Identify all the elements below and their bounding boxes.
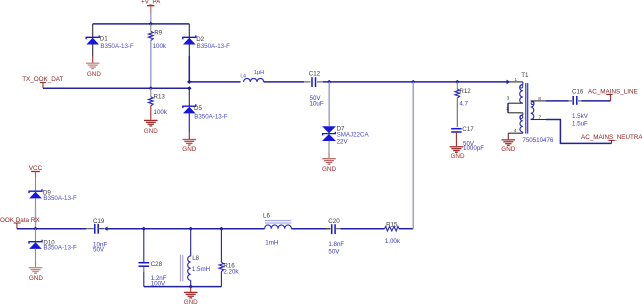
T1 primary winding bottom (pins 2-4) <box>522 113 524 115</box>
junction RX rail / C28 <box>142 227 147 231</box>
diode D1 <box>86 35 134 50</box>
svg-text:GND: GND <box>501 146 515 153</box>
net label OOK Data RX <box>0 217 40 229</box>
power VCC <box>29 165 43 191</box>
svg-text:B350A-13-F: B350A-13-F <box>197 43 231 50</box>
wire C12 to T1 <box>323 81 413 83</box>
svg-text:D2: D2 <box>196 36 204 43</box>
resistor R16 <box>219 229 239 287</box>
svg-text:B350A-13-F: B350A-13-F <box>100 43 134 50</box>
svg-text:L6: L6 <box>263 212 270 219</box>
svg-text:3: 3 <box>507 95 510 101</box>
wire main rail to T1 <box>413 81 507 83</box>
net label AC_MAINS_NEUTRAL <box>581 134 642 143</box>
junction RX rail / R16 <box>219 227 224 231</box>
svg-text:R9: R9 <box>154 30 162 37</box>
svg-text:C20: C20 <box>328 218 340 225</box>
junction TX wire / D5 column <box>187 86 192 90</box>
junction RX rail / D9 D10 <box>33 227 38 231</box>
svg-text:1.5kV: 1.5kV <box>572 113 589 120</box>
svg-text:GND: GND <box>87 71 101 78</box>
wire D7 drop <box>328 82 330 126</box>
wire C16 to AC_MAINS_LINE <box>582 100 611 102</box>
wire T1 pin 7 to AC_MAINS_NEUTRAL <box>546 120 612 144</box>
transformer T1 <box>506 72 554 144</box>
junction C12 / D7 <box>327 80 332 84</box>
T1 primary winding top (pins 1-3) <box>522 82 524 85</box>
wire main rail to L4 <box>189 81 240 83</box>
wire T1 pin 8 to C16 <box>546 100 569 102</box>
svg-text:GND: GND <box>144 128 158 135</box>
T1 secondary winding (pins 8-7) <box>531 101 534 120</box>
svg-text:GND: GND <box>322 166 336 173</box>
svg-text:T1: T1 <box>521 72 529 79</box>
svg-text:GND: GND <box>29 275 43 282</box>
svg-text:GND: GND <box>182 146 196 153</box>
capacitor C28 <box>139 229 167 288</box>
resistor R13 <box>149 88 168 120</box>
svg-text:1.8nF: 1.8nF <box>328 241 344 248</box>
svg-text:B350A-13-F: B350A-13-F <box>43 245 77 252</box>
resistor R9 <box>149 24 167 88</box>
svg-text:+V_PA: +V_PA <box>141 0 161 6</box>
svg-text:C28: C28 <box>151 261 163 268</box>
power +V_PA <box>141 0 161 24</box>
ground GND (D10) <box>29 249 44 282</box>
capacitor C20 <box>326 218 344 255</box>
ground GND (R13) <box>144 120 158 134</box>
svg-text:100k: 100k <box>154 109 168 116</box>
wire arrow after C19 <box>104 227 108 231</box>
ground GND (C17) <box>450 132 465 160</box>
ground GND (D5) <box>182 113 196 153</box>
junction bottom rail / GND <box>188 285 193 289</box>
wire D2 to main rail <box>188 44 190 82</box>
svg-text:D1: D1 <box>100 36 108 43</box>
inductor L6 <box>263 212 291 246</box>
svg-text:R13: R13 <box>154 93 166 100</box>
wire TX_OOK_DAT <box>43 87 189 89</box>
ground GND (D7) <box>322 141 336 173</box>
svg-text:100k: 100k <box>153 43 167 50</box>
svg-text:D5: D5 <box>194 105 202 112</box>
svg-text:1mH: 1mH <box>265 239 278 246</box>
svg-text:R12: R12 <box>459 88 471 95</box>
diode D9 <box>29 189 77 202</box>
T1 pins 3-2 connector <box>507 103 509 113</box>
TVS diode D7 <box>322 125 369 145</box>
svg-text:2: 2 <box>506 106 509 112</box>
wire RX rail to L6 <box>107 228 265 230</box>
wire riser to main rail <box>412 82 414 229</box>
svg-text:1000pF: 1000pF <box>463 145 484 152</box>
inductor L8 <box>180 229 210 287</box>
svg-text:1.00k: 1.00k <box>385 238 401 245</box>
svg-text:B350A-13-F: B350A-13-F <box>194 113 228 120</box>
svg-text:B350A-13-F: B350A-13-F <box>43 195 77 202</box>
wire D9 to RX rail <box>35 198 37 208</box>
svg-text:1µH: 1µH <box>254 70 264 76</box>
diode D10 <box>29 229 77 252</box>
svg-text:4.7: 4.7 <box>459 101 468 108</box>
junction RX rail / L8 <box>188 227 193 231</box>
svg-text:22V: 22V <box>337 138 349 145</box>
svg-text:1.5mH: 1.5mH <box>192 266 210 273</box>
wire L6 to C20 <box>291 228 330 230</box>
diode D5 <box>183 104 228 120</box>
svg-text:C16: C16 <box>572 88 584 95</box>
svg-text:C19: C19 <box>93 218 105 225</box>
svg-text:AC_MAINS_LINE: AC_MAINS_LINE <box>588 88 638 95</box>
T1 core <box>526 83 528 134</box>
svg-text:GND: GND <box>451 153 465 160</box>
svg-text:L4: L4 <box>240 74 246 80</box>
svg-text:R15: R15 <box>386 222 398 229</box>
svg-text:50V: 50V <box>93 247 105 254</box>
svg-text:2.20k: 2.20k <box>223 268 239 275</box>
svg-text:C17: C17 <box>462 126 474 133</box>
svg-text:10uF: 10uF <box>310 101 324 108</box>
svg-text:L8: L8 <box>192 255 199 262</box>
ground GND (T1 pin 4) <box>501 133 515 153</box>
wire D1 drop <box>92 24 94 37</box>
net label TX_OOK_DAT <box>22 76 63 88</box>
capacitor C16 <box>569 88 589 127</box>
resistor R12 <box>455 82 471 127</box>
inductor L4 <box>240 70 264 82</box>
svg-text:750510476: 750510476 <box>522 137 554 144</box>
junction main rail / R12 <box>455 80 460 84</box>
wire D5 drop <box>188 88 190 106</box>
svg-text:GND: GND <box>184 299 198 305</box>
junction main rail / D2 column <box>187 80 192 84</box>
wire bottom rail <box>144 286 222 288</box>
diode D2 <box>183 35 230 50</box>
svg-text:50V: 50V <box>328 249 340 256</box>
ground GND (bottom rail) <box>184 287 198 305</box>
wire C20 to R15 <box>341 228 385 230</box>
wire arrow into T1 pin 1 <box>507 80 511 85</box>
wire D2 drop <box>188 24 190 37</box>
junction main rail / R15 column <box>411 80 416 84</box>
net label AC_MAINS_LINE <box>588 88 638 101</box>
junction top rail / +V_PA <box>149 22 154 26</box>
wire RX rail left <box>17 228 86 230</box>
capacitor C12 <box>304 70 324 107</box>
capacitor C17 <box>451 126 484 152</box>
ground GND (D1) <box>86 44 101 78</box>
svg-text:C12: C12 <box>309 70 321 77</box>
wire top rail <box>93 23 190 25</box>
capacitor C19 <box>86 218 107 254</box>
junction TX wire / R13 <box>149 86 154 90</box>
wire R15 to main rail riser <box>399 228 413 230</box>
wire L4 to C12 <box>264 81 304 83</box>
resistor R15 <box>385 222 401 246</box>
svg-text:1.5uF: 1.5uF <box>572 121 588 128</box>
